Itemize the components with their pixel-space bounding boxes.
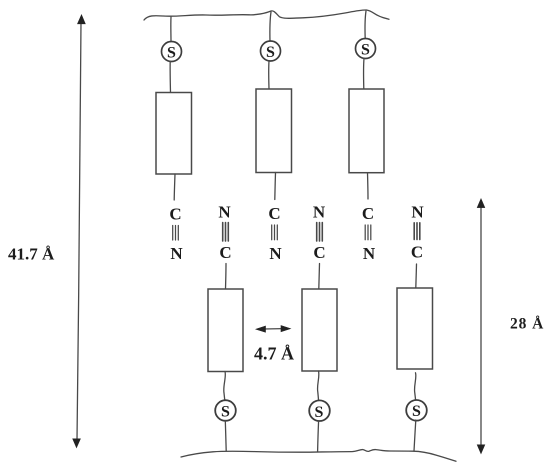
bottom chain 1 S circle [215, 400, 236, 421]
bottom chain 3 C-to-rect wire [415, 264, 418, 288]
svg-text:N: N [269, 244, 282, 263]
svg-text:41.7 Å: 41.7 Å [8, 245, 55, 264]
svg-text:4.7 Å: 4.7 Å [254, 344, 294, 364]
bottom chain 2 rect-to-circle wire [318, 371, 319, 401]
bottom chain 1 triple bond [223, 223, 229, 242]
top chain 2 triple bond [272, 225, 278, 240]
top chain 1 stem wire [170, 17, 172, 42]
top chain 2 tail wire [274, 173, 277, 200]
svg-text:C: C [268, 204, 280, 223]
top chain 3 circle-to-rect wire [363, 59, 365, 90]
svg-text:S: S [315, 404, 324, 421]
bottom chain 2 C-to-rect wire [318, 264, 321, 290]
bottom chain 3 stem wire [414, 420, 416, 451]
svg-text:S: S [266, 44, 275, 61]
svg-text:S: S [167, 44, 176, 61]
svg-text:28 Å: 28 Å [510, 316, 544, 333]
bottom surface wavy line [181, 450, 456, 462]
top chain 2 rectangle [256, 89, 292, 173]
bottom chain 1 rect-to-circle wire [224, 372, 226, 401]
bottom chain 1 stem wire [224, 421, 227, 452]
top chain 1 circle-to-rect wire [169, 62, 171, 93]
top chain 1 triple bond [173, 226, 179, 241]
svg-text:N: N [170, 244, 183, 263]
bottom chain 3 rectangle [397, 288, 433, 369]
svg-text:N: N [218, 202, 231, 221]
svg-text:C: C [362, 204, 374, 223]
svg-text:C: C [411, 242, 423, 261]
top chain 3 tail wire [367, 173, 370, 199]
bottom chain 1 C-to-rect wire [225, 264, 228, 290]
bottom chain 2 triple bond [317, 223, 323, 242]
bottom chain 1 rectangle [208, 289, 243, 372]
top surface wavy line [144, 10, 389, 20]
bottom chain 2 rectangle [302, 289, 337, 371]
top chain 2 stem wire [270, 12, 271, 42]
svg-text:S: S [221, 403, 230, 420]
svg-text:C: C [169, 204, 181, 223]
svg-text:S: S [412, 403, 421, 420]
top chain 3 rectangle [349, 89, 384, 173]
horizontal dimension arrow 4.7 A [256, 326, 291, 333]
left dimension arrow 41.7 A [73, 15, 86, 448]
top chain 2 S circle [261, 41, 281, 61]
svg-text:S: S [361, 41, 370, 58]
bottom chain 3 rect-to-circle wire [415, 373, 416, 401]
right dimension arrow 28 A [477, 199, 485, 454]
svg-text:C: C [313, 243, 325, 262]
bottom chain 2 S circle [309, 400, 330, 421]
top chain 1 S circle [162, 42, 182, 62]
top chain 3 S circle [356, 39, 376, 59]
svg-text:C: C [219, 243, 231, 262]
top chain 1 tail wire [173, 174, 176, 200]
svg-text:N: N [313, 202, 326, 221]
bottom chain 2 stem wire [318, 421, 319, 452]
bottom chain 3 S circle [406, 400, 427, 421]
svg-text:N: N [363, 244, 376, 263]
bottom chain 3 triple bond [414, 223, 420, 240]
svg-text:N: N [411, 202, 424, 221]
top chain 1 rectangle [156, 93, 192, 175]
top chain 3 triple bond [365, 225, 371, 240]
top chain 2 circle-to-rect wire [268, 61, 270, 89]
top chain 3 stem wire [365, 11, 366, 39]
